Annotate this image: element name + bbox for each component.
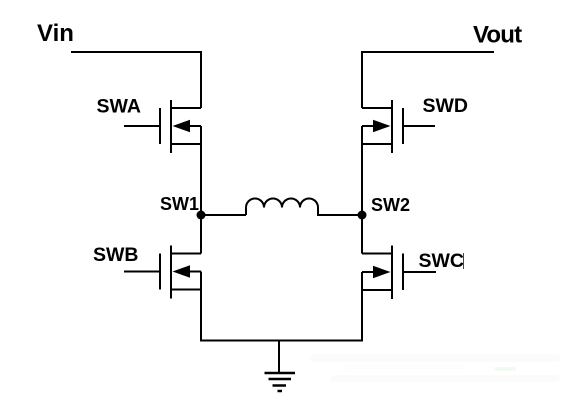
transistor SWD (NMOS switch, top-right, mirrored) — [362, 100, 435, 153]
svg-text:SW2: SW2 — [371, 195, 410, 215]
svg-text:SW1: SW1 — [160, 194, 199, 214]
wire Vout top rail — [362, 52, 494, 108]
wire SWA source to SW1 node — [200, 126, 202, 215]
svg-text:Vin: Vin — [37, 20, 74, 47]
wire inductor right to SW2 — [317, 214, 362, 216]
ground — [265, 373, 296, 391]
svg-text:SWD: SWD — [423, 95, 469, 117]
node SW2 junction dot — [358, 211, 367, 220]
text cursor artifact after SWC — [463, 253, 465, 269]
transistor SWA (NMOS switch, top-left) — [124, 100, 201, 153]
svg-text:SWA: SWA — [97, 96, 141, 118]
transistor SWC (NMOS switch, bottom-right, mirrored) — [362, 246, 436, 300]
wire SW1 down to SWB drain — [200, 215, 202, 254]
svg-text:SWB: SWB — [93, 244, 139, 266]
wire SWD source to SW2 node — [361, 126, 363, 215]
svg-text:SWC: SWC — [419, 250, 465, 272]
wire SWB source down to bottom rail — [200, 272, 202, 341]
inductor L1 — [246, 199, 318, 216]
wire SW2 down to SWC drain — [361, 215, 363, 254]
faint watermark smudge bottom right — [310, 354, 560, 382]
wire SWC source down to bottom rail — [361, 272, 363, 340]
wire ground stub — [278, 340, 280, 374]
wire bottom rail — [200, 340, 363, 342]
transistor SWB (NMOS switch, bottom-left) — [124, 246, 201, 299]
node SW1 junction dot — [197, 211, 206, 220]
wire Vin top rail — [71, 52, 201, 108]
svg-text:Vout: Vout — [473, 21, 522, 48]
wire SW1 to inductor left — [201, 214, 246, 216]
